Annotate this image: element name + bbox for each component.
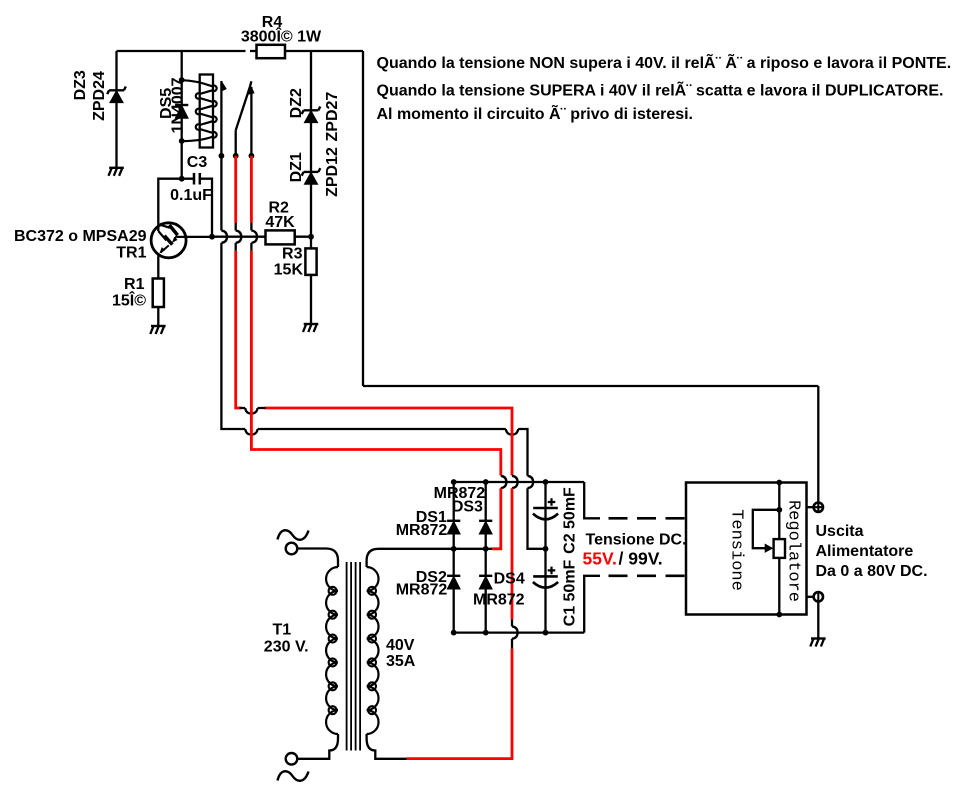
wire: TR1 base to C3 node bbox=[177, 236, 212, 238]
potentiometer vertical line bbox=[778, 483, 780, 615]
wire: C2 lead through cap bbox=[544, 482, 546, 549]
svg-text:0.1uF: 0.1uF bbox=[170, 187, 212, 204]
relay contact fixed arm 1 vertical x=221.4 with arrow bbox=[220, 81, 222, 156]
capacitor C2 bbox=[533, 498, 558, 519]
wire: C1 lead through cap bbox=[544, 549, 546, 633]
relay coil K1 box bbox=[200, 75, 213, 148]
ground for output bbox=[810, 639, 825, 647]
svg-text:DZ3: DZ3 bbox=[72, 70, 89, 100]
diode DS1 MR872 bbox=[447, 521, 460, 534]
svg-text:Quando la tensione NON supera: Quando la tensione NON supera i 40V. il … bbox=[377, 52, 952, 72]
svg-text:R3: R3 bbox=[282, 246, 303, 263]
wire: red from contact3 down x=251.4 (black near hop) bbox=[250, 156, 253, 223]
svg-text:DZ1: DZ1 bbox=[288, 152, 305, 182]
svg-text:TR1: TR1 bbox=[116, 245, 146, 262]
wire: C3 right lead down to base wire bbox=[182, 179, 212, 237]
node: DS5 top junction with relay coil bbox=[179, 77, 185, 83]
svg-text:55V.: 55V. bbox=[583, 549, 617, 569]
node: contact 1 terminal dot bbox=[219, 153, 225, 159]
zener diode DZ1 bbox=[302, 168, 321, 184]
wire: vertical drop x=819.5 to plus terminal bbox=[817, 386, 819, 502]
node: top bus C2 bbox=[543, 479, 549, 485]
svg-text:C3: C3 bbox=[187, 154, 208, 171]
svg-text:MR872: MR872 bbox=[473, 591, 525, 608]
svg-text:230 V.: 230 V. bbox=[264, 639, 309, 656]
node: top bus DS3 bbox=[483, 479, 489, 485]
wire: top horizontal bus y=51 from DZ3 to R4 bbox=[117, 50, 257, 52]
svg-text:3800Î© 1W: 3800Î© 1W bbox=[241, 27, 322, 46]
svg-text:Da 0 a 80V DC.: Da 0 a 80V DC. bbox=[816, 563, 928, 580]
wire: bridge top bus y=482 bbox=[454, 481, 585, 483]
svg-text:Al momento il circuito Ã¨ priv: Al momento il circuito Ã¨ privo di ister… bbox=[377, 103, 694, 123]
transistor TR1 internals (darlington) bbox=[158, 224, 170, 228]
wire: bottom bus y=632.6 bbox=[454, 631, 585, 633]
wire: C3 left lead and collector drop bbox=[158, 179, 181, 231]
node: pot bottom on box edge bbox=[776, 612, 782, 618]
relay contact fixed arm 3 vertical x=251.4 with arrow bbox=[250, 87, 252, 156]
wire: dashed link lower bbox=[609, 574, 687, 577]
transformer T1 primary winding bbox=[326, 567, 338, 734]
wire: DS3 column x=485.7 top bus to mid bus bbox=[485, 482, 487, 549]
svg-text:T1: T1 bbox=[272, 622, 291, 639]
zener diode DZ2 bbox=[302, 107, 321, 123]
resistor R4 bbox=[257, 45, 286, 58]
wire: long horizontal y=386 to output area bbox=[363, 385, 818, 387]
node: bottom bus DS2 bbox=[451, 630, 457, 636]
regulator box U1 bbox=[686, 483, 807, 615]
svg-text:DS4: DS4 bbox=[494, 571, 525, 588]
wire: DZ2/DZ1 column x=311 from top bus bbox=[310, 51, 312, 324]
svg-text:47K: 47K bbox=[265, 214, 295, 231]
transformer T1 primary terminal bottom bbox=[286, 753, 298, 765]
wire: right vertical drop x=363 from top bus to y=386 bbox=[362, 51, 364, 386]
svg-text:MR872: MR872 bbox=[396, 522, 448, 539]
AC squiggle bottom bbox=[278, 771, 309, 781]
svg-text:ZPD27: ZPD27 bbox=[324, 92, 341, 142]
node: mid bus DS1/DS2 bbox=[451, 546, 457, 552]
svg-text:40V: 40V bbox=[386, 637, 415, 654]
svg-text:MR872: MR872 bbox=[396, 582, 448, 599]
node: DS5 bottom junction with relay coil bbox=[179, 138, 185, 144]
relay movable contact slanted arm bbox=[236, 81, 252, 130]
svg-text:Uscita: Uscita bbox=[816, 523, 864, 540]
wire: minus terminal to ground bbox=[817, 602, 819, 639]
node: bottom bus C1 bbox=[543, 630, 549, 636]
AC squiggle top bbox=[278, 530, 309, 540]
svg-text:Alimentatore: Alimentatore bbox=[816, 543, 914, 560]
diode DS5 1N4007 bbox=[175, 105, 188, 118]
wire: wiper loop bbox=[753, 510, 780, 548]
svg-text:35A: 35A bbox=[386, 653, 416, 670]
wire: red horizontal y=408 with black dip over x=251.4 bbox=[241, 408, 512, 413]
wire: DZ3 branch vertical x=116.5 bbox=[115, 51, 117, 168]
svg-text:ZPD12: ZPD12 bbox=[324, 147, 341, 197]
wire: black horizontal y=429 with dips over red verticals bbox=[226, 429, 527, 435]
wire: base wire to R2 bbox=[212, 236, 266, 238]
wire: black vertical x=527.5 with hop over top bus, corner right to C-join bbox=[528, 434, 546, 549]
svg-text:BC372 o MPSA29: BC372 o MPSA29 bbox=[14, 228, 147, 245]
wire: secondary top lead to middle bus bbox=[367, 549, 454, 567]
transistor TR1 circle bbox=[151, 223, 186, 258]
zener diode DZ3 bbox=[107, 87, 126, 103]
wire: DS5 branch vertical x=181.7 from top bus down to C3 node bbox=[181, 51, 183, 179]
node: mid bus DS3/DS4 bbox=[483, 546, 489, 552]
ground for R1 bbox=[150, 326, 165, 334]
svg-text:15K: 15K bbox=[274, 262, 304, 279]
ground for R3 bbox=[303, 324, 318, 332]
ground for DZ3 bbox=[109, 168, 124, 176]
resistor R1 bbox=[153, 279, 164, 308]
svg-text:Tensione: Tensione bbox=[727, 509, 746, 591]
wire: black from contact1 down x=221.4 with hop over base wire, corner to y=429 bbox=[221, 156, 227, 429]
wire: red horizontal y=450 bbox=[256, 450, 500, 456]
svg-text:ZPD24: ZPD24 bbox=[91, 71, 108, 121]
wire: box to minus terminal bbox=[807, 596, 814, 598]
svg-text:C1 50mF: C1 50mF bbox=[562, 559, 579, 626]
svg-text:1N4007: 1N4007 bbox=[170, 77, 187, 133]
wire: primary top lead bbox=[297, 549, 338, 568]
capacitor C3 plates bbox=[194, 173, 200, 185]
capacitor C3 loop: node at DS5 column bbox=[179, 176, 185, 182]
wire: DS4 column x=485.7 mid bus to bottom bus bbox=[485, 549, 487, 633]
node: contact 2 terminal dot bbox=[233, 153, 239, 159]
wire: red from contact2 down x=235.7 (black near hop) bbox=[234, 156, 237, 223]
node: wiper tap bbox=[776, 507, 782, 513]
svg-text:Quando la tensione SUPERA i 40: Quando la tensione SUPERA i 40V il relÃ¨… bbox=[377, 80, 944, 100]
node: R2/R3/DZ1 junction bbox=[308, 234, 314, 240]
resistor R3 bbox=[305, 248, 316, 275]
potentiometer body rect bbox=[774, 539, 785, 558]
svg-text:R1: R1 bbox=[124, 276, 145, 293]
output minus terminal bbox=[814, 592, 823, 601]
wire: red vertical x=500.8 with hop over top bus, to mid bus stub bbox=[499, 455, 502, 476]
output plus terminal bbox=[814, 503, 823, 512]
relay coil winding bbox=[182, 80, 217, 141]
svg-text:DS3: DS3 bbox=[452, 499, 483, 516]
wire: dashed link upper bbox=[609, 517, 687, 520]
diode DS3 MR872 bbox=[479, 521, 492, 534]
wire: DS1 column x=453.7 top bus to mid bus bbox=[453, 482, 455, 549]
wire: middle bus y=548.8 bbox=[454, 548, 486, 550]
svg-text:Tensione DC.: Tensione DC. bbox=[586, 532, 687, 549]
svg-text:/ 99V.: / 99V. bbox=[619, 549, 663, 569]
wire: DS2 column x=453.7 mid bus to bottom bus bbox=[453, 549, 455, 633]
node: top bus DS1 bbox=[451, 479, 457, 485]
wire: primary bottom lead with step bbox=[297, 734, 338, 759]
node: bottom bus DS4 bbox=[483, 630, 489, 636]
node: base junction with C3 bbox=[209, 234, 215, 240]
wire: red vertical x=512 down to transformer bottom, hops over buses bbox=[511, 413, 514, 476]
resistor R2 bbox=[266, 230, 295, 244]
wire: R1 to ground bbox=[157, 307, 159, 326]
wiper arrowhead bbox=[765, 544, 774, 553]
transformer core lines bbox=[347, 562, 361, 751]
diode DS4 MR872 bbox=[479, 576, 492, 589]
transformer T1 secondary winding bbox=[367, 567, 379, 734]
node: C2/C1 midpoint bbox=[543, 546, 549, 552]
diode DS2 MR872 bbox=[447, 576, 460, 589]
wire: top bus corner to dashed link bbox=[584, 482, 600, 518]
wire: TR1 emitter to R1 bbox=[157, 254, 159, 279]
wire: R2 right to DZ1/R3 node bbox=[295, 236, 311, 238]
wire: secondary bottom lead with step, black part bbox=[367, 734, 407, 759]
svg-text:DZ2: DZ2 bbox=[288, 88, 305, 118]
capacitor C1 bbox=[533, 567, 558, 588]
svg-text:C2 50mF: C2 50mF bbox=[562, 487, 579, 554]
wire: box to plus terminal bbox=[807, 506, 814, 508]
wire: top horizontal bus y=51 from R4 to right corner bbox=[285, 50, 363, 52]
svg-text:15Î©: 15Î© bbox=[112, 291, 146, 310]
wire: bottom bus corner to dashed link bbox=[584, 576, 600, 633]
node: contact 3 terminal dot bbox=[249, 153, 255, 159]
svg-text:Regolatore: Regolatore bbox=[784, 500, 803, 602]
wire: movable arm stub to terminal bbox=[235, 130, 237, 156]
transformer T1 primary terminal top bbox=[286, 543, 298, 555]
node: pot top on box edge bbox=[776, 480, 782, 486]
